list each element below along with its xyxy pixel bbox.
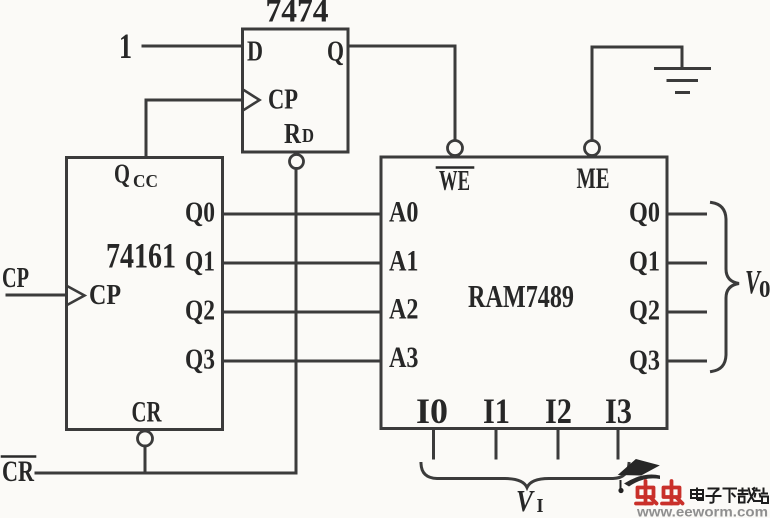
inversion bubble on ME bbox=[585, 141, 600, 156]
wire ME to ground bbox=[592, 47, 682, 141]
wire Q0 to A0 bbox=[223, 213, 382, 216]
svg-text:CC: CC bbox=[133, 171, 158, 191]
svg-text:I: I bbox=[537, 495, 544, 517]
svg-text:WE: WE bbox=[439, 165, 470, 197]
svg-text:74161: 74161 bbox=[106, 236, 176, 276]
svg-text:A3: A3 bbox=[389, 341, 419, 374]
svg-text:Q0: Q0 bbox=[185, 197, 215, 229]
svg-text:I3: I3 bbox=[605, 391, 632, 431]
svg-text:Q0: Q0 bbox=[629, 197, 660, 229]
svg-text:Q3: Q3 bbox=[629, 345, 660, 377]
wire I1 input stub bbox=[495, 429, 498, 459]
svg-text:Q2: Q2 bbox=[185, 295, 215, 327]
wire I0 input stub bbox=[432, 429, 435, 459]
clock triangle of 7474 CP pin bbox=[245, 91, 260, 110]
svg-text:Q: Q bbox=[327, 36, 344, 68]
wire Q3 to A3 bbox=[223, 360, 382, 363]
wire Q output to WE bbox=[348, 46, 455, 140]
svg-text:Q: Q bbox=[114, 159, 130, 189]
svg-text:A1: A1 bbox=[389, 245, 419, 278]
wire Q3 output stub bbox=[667, 360, 706, 363]
svg-text:D: D bbox=[247, 36, 263, 68]
svg-text:I0: I0 bbox=[416, 391, 448, 431]
svg-text:0: 0 bbox=[759, 277, 770, 303]
wire CR-bar bus bbox=[36, 472, 296, 475]
wire 1 to D input bbox=[143, 45, 243, 48]
svg-text:R: R bbox=[284, 118, 302, 150]
wire Q2 output stub bbox=[667, 311, 706, 314]
watermark text chongchong (red worm chars) bbox=[636, 481, 683, 504]
svg-text:ME: ME bbox=[577, 162, 610, 195]
watermark text dianzi xiazaizhan (CJK strokes) bbox=[691, 488, 768, 504]
svg-text:V: V bbox=[516, 483, 535, 518]
pin WE-bar label bbox=[437, 165, 473, 197]
svg-text:Q2: Q2 bbox=[629, 295, 660, 327]
wire Q1 to A1 bbox=[223, 262, 382, 265]
svg-text:CP: CP bbox=[89, 280, 121, 311]
net VO label bbox=[745, 264, 770, 303]
svg-text:Q1: Q1 bbox=[629, 246, 660, 278]
svg-text:Q3: Q3 bbox=[185, 344, 215, 376]
brace for VO output bus bbox=[712, 203, 740, 372]
RAM U3 7489 box bbox=[381, 157, 667, 429]
wire Q1 output stub bbox=[667, 262, 706, 265]
svg-text:CR: CR bbox=[2, 455, 34, 488]
svg-text:CP: CP bbox=[2, 263, 29, 294]
pin QCC label bbox=[114, 159, 158, 192]
svg-text:I2: I2 bbox=[545, 391, 572, 431]
svg-text:1: 1 bbox=[119, 26, 132, 66]
brace for VI input bus bbox=[421, 464, 629, 488]
wire I3 input stub bbox=[617, 429, 620, 459]
svg-text:RAM7489: RAM7489 bbox=[468, 278, 574, 314]
svg-text:Q1: Q1 bbox=[185, 246, 215, 278]
svg-text:CP: CP bbox=[268, 85, 298, 116]
svg-text:CR: CR bbox=[132, 396, 162, 429]
svg-text:A2: A2 bbox=[389, 293, 419, 326]
wire RD bubble down to CR bus bbox=[295, 169, 298, 474]
wire Q2 to A2 bbox=[223, 311, 382, 314]
flip-flop U1 7474 box bbox=[243, 29, 349, 152]
wire stub CR bubble to bus bbox=[144, 446, 147, 473]
svg-text:7474: 7474 bbox=[266, 0, 329, 30]
wire 7474 CP to 74161 top (QCC) bbox=[146, 100, 243, 157]
clock triangle of 74161 CP pin bbox=[68, 287, 85, 305]
svg-text:I1: I1 bbox=[483, 391, 510, 431]
net VI label bbox=[516, 483, 544, 518]
wire Q0 output stub bbox=[667, 213, 706, 216]
inversion bubble on WE bbox=[448, 141, 463, 156]
watermark logo graduation cap bbox=[618, 460, 660, 494]
ground symbol bbox=[656, 69, 710, 93]
pin RD label bbox=[284, 118, 314, 150]
inversion bubble on RD bbox=[290, 155, 304, 169]
svg-text:D: D bbox=[302, 125, 314, 147]
svg-text:www.eeworm.com: www.eeworm.com bbox=[636, 505, 768, 518]
svg-text:A0: A0 bbox=[389, 196, 419, 229]
net CR-bar input label bbox=[2, 455, 35, 488]
inversion bubble on CR bbox=[138, 431, 153, 446]
wire CP input bbox=[7, 294, 67, 297]
wire I2 input stub bbox=[557, 429, 560, 459]
counter U2 74161 box bbox=[67, 158, 223, 430]
